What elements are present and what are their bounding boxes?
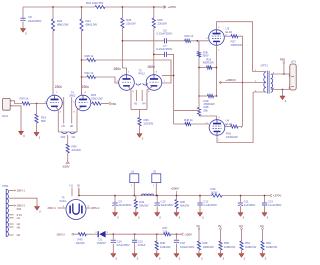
- resistor R26: [153, 7, 155, 18]
- resistor R40: [66, 144, 69, 153]
- ground (OPT secondary): [282, 90, 284, 96]
- svg-text:GD: GD: [72, 136, 76, 139]
- ground (R45): [174, 213, 179, 217]
- svg-text:100k/2W: 100k/2W: [160, 245, 171, 249]
- net 0V flag (R50): [220, 228, 222, 230]
- svg-text:0V: 0V: [197, 224, 200, 228]
- wire U3 plate to OPT: [217, 22, 253, 72]
- ground (R19): [34, 132, 39, 136]
- svg-text:R34 1k: R34 1k: [20, 96, 29, 100]
- svg-text:H4: H4: [260, 224, 264, 228]
- svg-text:R33: R33: [17, 207, 22, 211]
- resistor R18 and FB1 node: [91, 103, 92, 105]
- resistor R43: [78, 233, 86, 236]
- junction dots on top rail: [52, 6, 53, 7]
- capacitor C21: [134, 234, 135, 235]
- svg-text:R20 1k: R20 1k: [185, 34, 194, 38]
- resistor R34: [13, 101, 22, 104]
- net -150V flag: [66, 162, 69, 164]
- inductor choke on rail: [142, 194, 154, 195]
- svg-text:H3: H3: [239, 224, 243, 228]
- svg-text:56k/2W: 56k/2W: [180, 203, 189, 207]
- svg-text:VR2: VR2: [61, 136, 66, 139]
- svg-text:FB1: FB1: [112, 102, 117, 106]
- svg-text:22uF/250V: 22uF/250V: [28, 19, 42, 23]
- svg-text:22kΩ 5W: 22kΩ 5W: [91, 97, 103, 101]
- heater pin H4 stub: [141, 90, 143, 101]
- svg-text:+290(V): +290(V): [226, 78, 236, 82]
- net FB2 flag: [283, 64, 285, 75]
- wire OPT primary top lead: [253, 71, 266, 74]
- svg-text:+290V: +290V: [171, 187, 179, 191]
- net 0V flag (R49): [198, 228, 200, 230]
- capacitor C14: [113, 234, 114, 235]
- svg-text:450R/2W: 450R/2W: [203, 60, 215, 64]
- ground (R44): [133, 213, 138, 217]
- resistor R22: [95, 5, 105, 8]
- svg-text:5R02: 5R02: [69, 94, 76, 98]
- svg-text:PK12: PK12: [139, 72, 146, 76]
- connector U1 box: [130, 174, 139, 183]
- wire OPT center tap: [265, 82, 267, 84]
- svg-text:H5: H5: [17, 225, 21, 229]
- resistor R52: [262, 230, 264, 242]
- resistor R28 to V2b grid: [82, 59, 88, 61]
- ground (R50): [218, 254, 223, 258]
- svg-text:1N4007: 1N4007: [97, 241, 107, 245]
- resistor R31 cathode branch: [214, 95, 217, 97]
- resistor R51: [241, 230, 243, 242]
- resistor R25: [121, 7, 123, 18]
- svg-text:RCA: RCA: [2, 114, 8, 118]
- svg-text:H3: H3: [134, 102, 138, 106]
- svg-text:-150V: -150V: [62, 165, 70, 169]
- svg-text:68kΩ 5W: 68kΩ 5W: [86, 23, 98, 27]
- capacitor C10: [156, 196, 158, 203]
- net H3 flag (R51): [241, 228, 243, 230]
- ground (C8): [20, 29, 25, 33]
- wire +270V stub: [154, 6, 166, 8]
- ground (R49): [196, 254, 201, 258]
- resistor R38 chain vertical lower: [197, 108, 200, 116]
- net H4 flag (R52): [262, 228, 264, 230]
- ground (C9): [112, 213, 117, 217]
- svg-text:1uF/450V: 1uF/450V: [244, 203, 256, 207]
- svg-text:56k: 56k: [204, 108, 209, 112]
- svg-text:0.22uF/250V: 0.22uF/250V: [157, 47, 173, 51]
- net 280V-2 flag (plate right): [86, 207, 91, 209]
- net -100V flag: [181, 233, 183, 236]
- resistor R48 to U4 grid: [174, 123, 185, 125]
- capacitor C13: [264, 196, 266, 203]
- resistor R47: [164, 233, 171, 236]
- wire V2a cathode down: [129, 87, 132, 110]
- wire V1a cathode down: [56, 107, 58, 132]
- svg-text:230v: 230v: [55, 85, 63, 89]
- svg-text:+270V: +270V: [168, 5, 178, 9]
- svg-text:7.5k: 7.5k: [163, 229, 169, 233]
- svg-text:FB2: FB2: [280, 57, 286, 61]
- wire transformer taps: [9, 190, 14, 192]
- svg-text:33uF/450V: 33uF/450V: [118, 203, 131, 207]
- net 280V-1 tap flag: [14, 190, 16, 192]
- svg-text:33uF/450V: 33uF/450V: [161, 203, 174, 207]
- svg-text:100nF: 100nF: [138, 243, 146, 247]
- wire U4 plate line: [199, 116, 217, 120]
- wire OPT secondary bottom lead: [271, 87, 290, 90]
- resistor R41 screen: [225, 126, 231, 128]
- wire V1b cathode down: [77, 107, 82, 132]
- ground (R51): [239, 254, 244, 258]
- svg-text:0.1uF/450V: 0.1uF/450V: [203, 203, 217, 207]
- svg-text:U2: U2: [153, 170, 157, 174]
- capacitor C9: [114, 196, 116, 203]
- svg-text:U1: U1: [131, 170, 135, 174]
- net 280V-2 tap flag: [14, 205, 16, 207]
- wire U3 cathode: [216, 45, 218, 96]
- svg-text:22k/2W: 22k/2W: [158, 22, 168, 26]
- svg-text:H6: H6: [70, 124, 74, 128]
- pentode U4 EL34: [209, 120, 225, 136]
- svg-text:H6: H6: [17, 233, 21, 237]
- wire heater join V1: [58, 131, 77, 133]
- wire V2b cathode down: [147, 87, 152, 110]
- svg-text:H2: H2: [77, 183, 81, 187]
- capacitor C12: [199, 196, 201, 203]
- ground (C14): [111, 254, 116, 258]
- svg-text:280V-2: 280V-2: [91, 206, 100, 210]
- svg-text:260v: 260v: [114, 67, 122, 71]
- svg-text:H1: H1: [17, 216, 21, 220]
- resistor R50: [220, 230, 222, 242]
- capacitor C18: [176, 234, 177, 235]
- wire rail start riser: [78, 189, 80, 196]
- svg-text:100R/1W: 100R/1W: [231, 43, 243, 47]
- resistor R23: [52, 7, 54, 19]
- svg-text:100R/1W: 100R/1W: [245, 245, 257, 249]
- svg-text:10k/2W: 10k/2W: [76, 241, 85, 245]
- wire U4 cathode to OPT: [217, 92, 253, 143]
- heater pin H5 stub: [63, 97, 65, 124]
- ground (C18): [174, 254, 179, 258]
- ground (C21): [132, 254, 137, 258]
- connector LP1 speaker: [290, 64, 296, 90]
- svg-text:220/2W: 220/2W: [144, 121, 154, 125]
- resistor R44: [135, 196, 137, 200]
- svg-text:280V-1: 280V-1: [48, 206, 57, 210]
- svg-text:R22 22kΩ 5W: R22 22kΩ 5W: [86, 1, 104, 5]
- pentode U3 EL34: [209, 30, 225, 46]
- heater riser H1: [71, 188, 73, 197]
- resistor R20: [185, 39, 191, 42]
- svg-text:OPT1: OPT1: [261, 64, 269, 68]
- ground (R36): [137, 134, 142, 138]
- wire loop to R48: [174, 110, 199, 112]
- svg-text:EL34: EL34: [226, 30, 233, 34]
- svg-text:R48 1k: R48 1k: [184, 118, 193, 122]
- resistor R32 to V2a grid: [82, 76, 88, 78]
- wire B+ top rail: [23, 6, 95, 8]
- net +270V flag (psu rail): [270, 194, 273, 197]
- ground (C11): [238, 213, 243, 217]
- wire V2b plate to splitter node: [162, 75, 174, 77]
- svg-text:1k2W: 1k2W: [211, 190, 218, 194]
- heater pin H6 stub: [71, 97, 73, 124]
- svg-text:22k/2W: 22k/2W: [126, 22, 136, 26]
- resistor R45: [176, 196, 178, 200]
- ground (C10): [155, 213, 160, 217]
- rectifier tube U5 5U4G: [66, 200, 86, 220]
- wire HV center tap to ground: [14, 198, 37, 206]
- wire PSU B+ rail: [79, 195, 212, 197]
- svg-text:100uF/100V: 100uF/100V: [180, 245, 195, 249]
- svg-text:100R/1W: 100R/1W: [226, 135, 238, 139]
- resistor R48b divider: [156, 234, 157, 235]
- svg-text:230v: 230v: [82, 85, 90, 89]
- svg-text:100R/1W: 100R/1W: [224, 245, 236, 249]
- resistor R46 on rail: [212, 194, 223, 197]
- heater filament arcs V1: [62, 132, 76, 134]
- svg-text:47uF/250V: 47uF/250V: [117, 243, 130, 247]
- ground (HV center tap): [34, 207, 39, 211]
- heater pin H3 stub: [135, 90, 137, 101]
- svg-text:LP1: LP1: [291, 59, 296, 63]
- heater riser H2: [78, 188, 80, 196]
- svg-text:5U4G: 5U4G: [60, 199, 67, 203]
- svg-text:280V-2: 280V-2: [17, 204, 26, 208]
- svg-text:100R/1W: 100R/1W: [266, 245, 278, 249]
- net +290V line to OPT center tap: [219, 82, 266, 84]
- ground (RCA shield): [18, 131, 23, 135]
- svg-text:0V: 0V: [218, 224, 221, 228]
- heater arcs V2 pair: [136, 84, 148, 86]
- resistor R24: [81, 7, 83, 19]
- resistor R49: [198, 230, 200, 242]
- resistor R19 grid leak: [36, 104, 38, 115]
- ground (R52): [260, 254, 265, 258]
- capacitor C11: [240, 196, 242, 203]
- svg-text:260v: 260v: [148, 65, 156, 69]
- wire heater tail: [67, 135, 69, 144]
- svg-text:0.1uF/450V: 0.1uF/450V: [268, 203, 282, 207]
- svg-text:68kΩ 5W: 68kΩ 5W: [57, 23, 69, 27]
- resistor R27 screen: [224, 35, 231, 37]
- svg-text:R28 1k: R28 1k: [85, 54, 94, 58]
- wire cathode join V2: [131, 109, 147, 111]
- ground (C13): [262, 213, 267, 217]
- svg-text:100R/1W: 100R/1W: [203, 245, 215, 249]
- triode V2b: [146, 75, 162, 91]
- svg-text:0.22uF/250V: 0.22uF/250V: [157, 32, 173, 36]
- svg-text:+270V: +270V: [273, 194, 281, 198]
- wire RCA shield to ground: [13, 106, 21, 131]
- wire V1b plate riser and taps: [81, 60, 83, 95]
- triode V1b: [75, 95, 91, 111]
- connector RCA jack J1: [3, 98, 11, 110]
- junction node grid V1a: [36, 103, 37, 104]
- diode D1 1N4007: [98, 231, 99, 237]
- triode V1a: [47, 95, 63, 111]
- resistor R14 branch: [199, 67, 207, 69]
- capacitor C7: [154, 53, 164, 55]
- capacitor C8: [22, 7, 24, 18]
- svg-text:47k/2W: 47k/2W: [72, 148, 82, 152]
- capacitor C6: [122, 40, 164, 42]
- resistor R36 tail: [138, 118, 141, 127]
- connector U2 box: [152, 174, 161, 183]
- wire bias row: [74, 233, 79, 235]
- svg-text:H4: H4: [142, 102, 146, 106]
- resistor R30 chain vertical upper: [197, 41, 199, 52]
- svg-text:56K: 56K: [41, 119, 46, 123]
- ground (C12): [197, 213, 202, 217]
- svg-text:280V-2: 280V-2: [57, 232, 66, 236]
- svg-text:-100V: -100V: [184, 232, 192, 236]
- svg-text:280V-1: 280V-1: [17, 189, 26, 193]
- triode V2a: [119, 75, 135, 91]
- wire OPT primary bottom lead: [253, 91, 266, 93]
- ground (R48b): [154, 254, 159, 258]
- svg-text:PW1: PW1: [3, 184, 9, 188]
- svg-text:R32 1k: R32 1k: [85, 71, 94, 75]
- wire OPT secondary top lead: [271, 74, 290, 77]
- svg-text:56k/2W: 56k/2W: [139, 203, 148, 207]
- wire screen rail: [242, 83, 244, 127]
